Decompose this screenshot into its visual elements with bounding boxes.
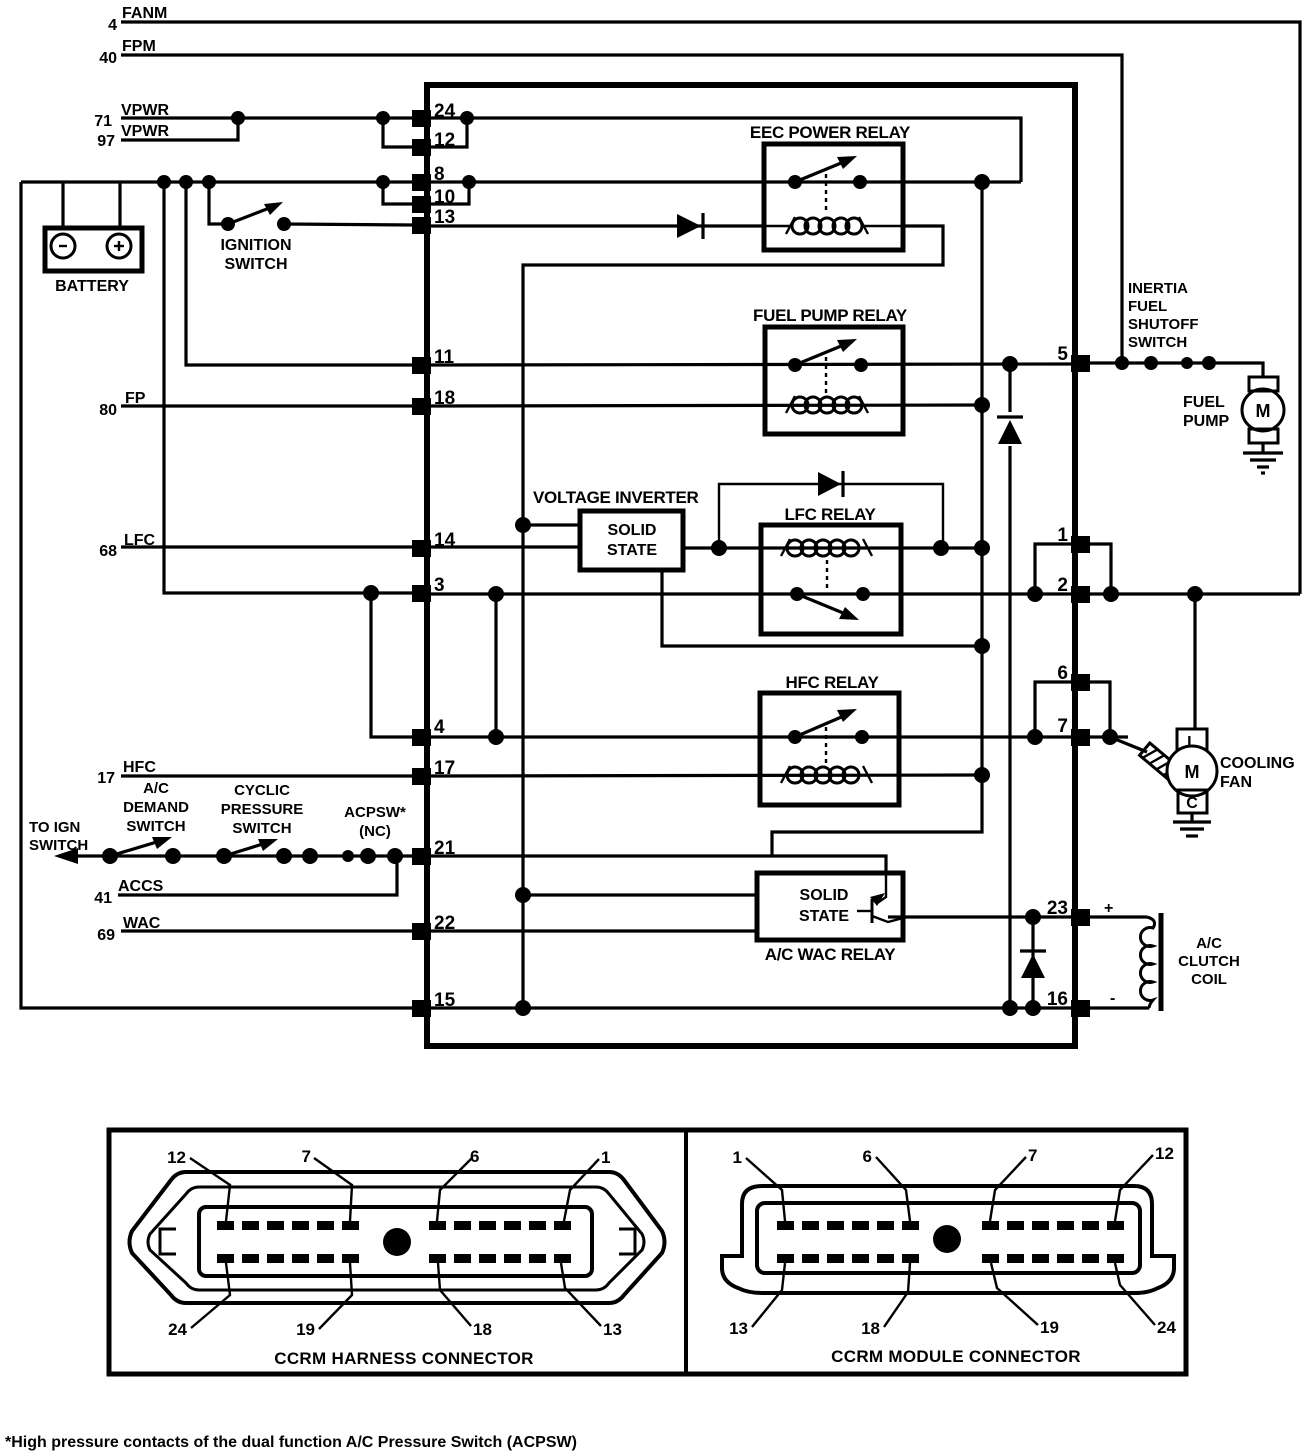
wire loop VPWR to pin12 (left) — [383, 118, 413, 147]
svg-text:VPWR: VPWR — [121, 123, 169, 140]
svg-text:FUEL: FUEL — [1183, 394, 1225, 411]
svg-text:97: 97 — [97, 133, 115, 150]
junction pin8 right loop — [462, 175, 476, 189]
LFC relay K3 — [761, 505, 901, 634]
svg-text:18: 18 — [861, 1319, 880, 1338]
svg-text:68: 68 — [99, 543, 117, 560]
junction bus to pin11 feed — [179, 175, 193, 189]
net LFC (pin 68) — [99, 532, 155, 560]
svg-text:C: C — [1186, 795, 1198, 812]
pin 3 — [412, 575, 445, 602]
pin 5 — [1057, 344, 1090, 372]
svg-text:CLUTCH: CLUTCH — [1178, 953, 1240, 970]
fuel pump motor M1 — [1183, 377, 1284, 453]
svg-text:COOLING: COOLING — [1220, 755, 1295, 772]
junction pin3 line to crosslink — [488, 586, 504, 602]
module callout pin 13 — [729, 1263, 785, 1338]
resistor R1 fan low speed (hatched) — [1140, 743, 1181, 781]
junction feed rail at WAC input — [515, 887, 531, 903]
harness callout pin 1 — [564, 1148, 610, 1221]
junction LFC coil to B+ rail — [974, 540, 990, 556]
wire cooling fan feed drop — [1193, 594, 1196, 729]
wire feed rail to voltage inverter input — [523, 523, 580, 526]
wire pin13 ignition line to EEC coil — [431, 224, 764, 227]
svg-text:PRESSURE: PRESSURE — [221, 801, 304, 818]
diode D3 on vertical branch — [997, 412, 1023, 446]
EEC power relay K1 — [750, 123, 911, 250]
harness callout pin 12 — [167, 1148, 230, 1221]
wire pin17 HFC line through HFC coil to B+ rail — [431, 775, 982, 776]
svg-text:7: 7 — [1028, 1146, 1037, 1165]
pin 1 — [1057, 525, 1090, 553]
svg-text:HFC: HFC — [123, 759, 156, 776]
svg-text:BATTERY: BATTERY — [55, 278, 129, 295]
harness pins row top — [217, 1221, 571, 1230]
pin 16 — [1047, 989, 1090, 1017]
svg-text:INERTIA: INERTIA — [1128, 280, 1188, 297]
junction HFC coil to B+ rail — [974, 767, 990, 783]
voltage inverter U1 solid state — [580, 511, 683, 570]
svg-text:19: 19 — [296, 1320, 315, 1339]
A/C WAC relay U2 solid state — [757, 873, 903, 964]
wire FPM horizontal and drop to inertia line — [121, 55, 1122, 363]
CCRM module box outline — [427, 85, 1075, 1046]
junction bus left of pin8 — [376, 175, 390, 189]
ground cooling fan — [1173, 813, 1211, 836]
HFC relay K4 — [760, 673, 899, 805]
wire pin21 line to WAC relay input — [431, 856, 886, 873]
net HFC (pin 17) — [97, 759, 156, 787]
wire VPWR pin24 line inside module to EEC contact output — [431, 118, 1021, 182]
pin 12 — [412, 130, 455, 156]
A/C clutch coil L1 — [1140, 913, 1239, 1011]
wire pin3 line through LFC relay contacts to pin2 — [431, 592, 1071, 595]
net WAC (pin 69) — [97, 915, 161, 944]
wire pin15 ground line to pin16 — [431, 1006, 1071, 1009]
ACPSW normally-closed contacts — [302, 804, 406, 864]
wire WAC line to pin22 — [121, 929, 413, 932]
pin 8 — [412, 164, 445, 191]
svg-text:(NC): (NC) — [359, 823, 391, 840]
svg-text:M: M — [1185, 762, 1200, 782]
module connector pin field — [757, 1203, 1140, 1273]
svg-text:24: 24 — [168, 1320, 187, 1339]
arrow to ignition switch — [54, 848, 78, 864]
harness callout pin 7 — [302, 1147, 352, 1221]
svg-text:IGNITION: IGNITION — [220, 237, 291, 254]
svg-text:SWITCH: SWITCH — [1128, 334, 1187, 351]
junction pin24 right loop — [460, 111, 474, 125]
wire feed to pin3 — [164, 182, 413, 593]
svg-text:DEMAND: DEMAND — [123, 799, 189, 816]
svg-text:HFC RELAY: HFC RELAY — [785, 673, 879, 692]
pin 10 — [412, 187, 455, 213]
svg-text:1: 1 — [733, 1148, 742, 1167]
net FANM (pin 4) — [108, 5, 167, 34]
wire ACCS line rising to chain — [118, 856, 397, 895]
svg-text:6: 6 — [470, 1147, 479, 1166]
wire pin6 outer loop — [1090, 682, 1110, 737]
svg-text:69: 69 — [97, 927, 115, 944]
junction cooling fan feed — [1187, 586, 1203, 602]
svg-text:LFC RELAY: LFC RELAY — [784, 505, 876, 524]
svg-text:FANM: FANM — [122, 5, 167, 22]
svg-text:FUEL PUMP RELAY: FUEL PUMP RELAY — [753, 306, 908, 325]
junction ACCS joins chain — [387, 848, 403, 864]
wire loop bus to pin10 (left) — [383, 182, 413, 204]
wire pin1 inner loop — [1035, 544, 1071, 594]
diode D1 on pin13 line — [677, 213, 703, 239]
svg-text:SHUTOFF: SHUTOFF — [1128, 316, 1199, 333]
net VPWR (pin 71) — [94, 102, 169, 130]
wire pin22 WAC line into WAC relay — [431, 929, 757, 932]
wire feed rail to WAC relay left input — [523, 893, 757, 896]
pin 17 — [412, 758, 455, 785]
svg-text:SWITCH: SWITCH — [126, 818, 185, 835]
harness connector key left — [160, 1229, 176, 1254]
module callout pin 24 — [1115, 1263, 1176, 1337]
svg-text:*High pressure contacts of the: *High pressure contacts of the dual func… — [5, 1434, 577, 1451]
battery B1 — [45, 182, 142, 295]
wire LFC line to pin14 — [121, 545, 413, 548]
svg-text:FAN: FAN — [1220, 774, 1252, 791]
wire VPWR pin71 line — [121, 116, 413, 119]
svg-text:ACCS: ACCS — [118, 878, 164, 895]
net VPWR (pin 97) — [97, 123, 169, 150]
module callout pin 7 — [990, 1146, 1037, 1221]
svg-text:A/C WAC RELAY: A/C WAC RELAY — [765, 945, 897, 964]
ignition switch S1 — [209, 182, 292, 273]
wire pin7 line to fan resistor — [1090, 735, 1128, 738]
battery positive bus y=182 — [21, 180, 413, 183]
svg-text:CYCLIC: CYCLIC — [234, 782, 290, 799]
wire loop to pin10 (right) — [431, 182, 469, 204]
net FP (pin 80) — [99, 390, 146, 419]
wire feed branch to pin4 — [371, 593, 413, 737]
wire battery negative rail down left side to pin15 line — [21, 182, 413, 1008]
svg-text:SOLID: SOLID — [608, 522, 657, 539]
svg-text:CCRM HARNESS CONNECTOR: CCRM HARNESS CONNECTOR — [274, 1349, 533, 1368]
harness callout pin 13 — [561, 1263, 622, 1339]
CCRM harness connector J1 — [130, 1172, 665, 1303]
svg-text:STATE: STATE — [799, 908, 849, 925]
pin 11 — [412, 347, 455, 374]
wire EEC coil return loop down to internal feed rail — [523, 226, 943, 1008]
pin 4 — [412, 717, 445, 746]
module callout pin 19 — [991, 1263, 1059, 1337]
pin 14 — [412, 530, 456, 557]
harness callout pin 6 — [437, 1147, 479, 1221]
svg-text:SWITCH: SWITCH — [224, 256, 287, 273]
svg-text:12: 12 — [1155, 1144, 1174, 1163]
wire diagonal to low speed resistor — [1110, 737, 1147, 752]
diode D2 on bypass loop — [818, 471, 843, 497]
module center polarizing post — [933, 1225, 961, 1253]
wire voltage inverter output through LFC coil to B+ rail — [683, 546, 982, 549]
svg-text:12: 12 — [167, 1148, 186, 1167]
junction VPWR left of pin24 — [376, 111, 390, 125]
junction diode bypass right — [933, 540, 949, 556]
junction B+ distribution vertical top — [974, 174, 990, 190]
module pins row top — [777, 1221, 1124, 1230]
svg-text:80: 80 — [99, 402, 117, 419]
harness callout pin 19 — [296, 1263, 352, 1339]
diode D4 clamp across A/C clutch — [1020, 917, 1046, 1008]
wire pin1 outer loop — [1090, 544, 1111, 594]
harness callout pin 24 — [168, 1263, 230, 1339]
svg-text:-: - — [1110, 990, 1115, 1007]
pin 22 — [412, 913, 455, 940]
wire FANM horizontal top — [121, 22, 1300, 594]
wire pin16 line to clutch coil minus — [1090, 1006, 1149, 1009]
svg-text:TO IGN: TO IGN — [29, 819, 80, 836]
cooling fan motor M2 — [1167, 729, 1295, 813]
svg-text:COIL: COIL — [1191, 971, 1227, 988]
svg-text:VOLTAGE INVERTER: VOLTAGE INVERTER — [533, 488, 699, 507]
junction bus to pin3/4 feed — [157, 175, 171, 189]
junction diode bypass left — [711, 540, 727, 556]
label TO IGN SWITCH — [29, 819, 88, 854]
label inertia fuel shutoff switch — [1128, 280, 1199, 351]
svg-text:4: 4 — [108, 17, 117, 34]
svg-text:ACPSW*: ACPSW* — [344, 804, 406, 821]
wire pin5 line to fuel pump — [1090, 363, 1263, 377]
pin 6 — [1057, 663, 1090, 691]
module callout pin 18 — [861, 1263, 910, 1338]
svg-text:A/C: A/C — [143, 780, 169, 797]
pin 21 — [412, 838, 456, 865]
wire pin23 line to clutch coil plus — [1090, 915, 1147, 918]
svg-text:SWITCH: SWITCH — [232, 820, 291, 837]
junction coil to B+ rail — [974, 397, 990, 413]
junction VI feed at B+ rail — [974, 638, 990, 654]
svg-text:SOLID: SOLID — [800, 887, 849, 904]
wire loop VPWR to pin12 (right) — [431, 118, 467, 147]
wire A/C switch chain to pin21 — [60, 854, 413, 857]
pin 15 — [412, 990, 456, 1017]
harness connector inner shell — [148, 1187, 644, 1290]
junction pin1 inner loop on pin2 line — [1027, 586, 1043, 602]
module callout pin 12 — [1115, 1144, 1174, 1221]
module connector outer shell with wings — [722, 1186, 1174, 1293]
junction feed rail to voltage inverter — [515, 517, 531, 533]
pin 13 — [412, 207, 455, 234]
fuel pump relay K2 — [753, 306, 908, 434]
module callout pin 6 — [863, 1147, 910, 1221]
junction pin1 outer loop at pin2 line — [1103, 586, 1119, 602]
svg-text:41: 41 — [94, 890, 112, 907]
junction pin6 outer loop at pin7 line — [1102, 729, 1118, 745]
wire crosslink pin3 line to pin4 line — [494, 594, 497, 737]
wire pin6 inner loop — [1035, 682, 1071, 737]
module callout pin 1 — [733, 1148, 785, 1221]
net FPM (pin 40) — [99, 38, 156, 67]
net ACCS (pin 41) — [94, 878, 163, 907]
wire HFC line to pin17 — [121, 774, 413, 777]
inertia fuel shutoff switch S4 contacts — [1115, 356, 1216, 370]
svg-text:6: 6 — [863, 1147, 872, 1166]
module pins row bottom — [777, 1254, 1124, 1263]
junction diode vertical at pin16 line — [1002, 1000, 1018, 1016]
svg-text:7: 7 — [1057, 716, 1068, 737]
svg-text:PUMP: PUMP — [1183, 413, 1230, 430]
junction crosslink at pin4 line — [488, 729, 504, 745]
svg-text:17: 17 — [97, 770, 115, 787]
svg-text:1: 1 — [601, 1148, 610, 1167]
junction VPWR merge — [231, 111, 245, 125]
wire FP line to pin18 — [121, 404, 413, 407]
svg-text:13: 13 — [729, 1319, 748, 1338]
svg-text:7: 7 — [302, 1147, 311, 1166]
svg-text:SWITCH: SWITCH — [29, 837, 88, 854]
wire WAC relay output to pin23 — [888, 915, 1071, 918]
pin 18 — [412, 388, 455, 415]
wire feed to pin11 — [186, 182, 413, 365]
junction clamp diode top — [1025, 909, 1041, 925]
svg-text:71: 71 — [94, 113, 112, 130]
A/C demand switch S2 — [102, 780, 189, 864]
svg-text:EEC POWER RELAY: EEC POWER RELAY — [750, 123, 911, 142]
wire diode bypass loop over LFC coil — [719, 484, 943, 548]
cyclic pressure switch S3 — [216, 782, 303, 864]
svg-text:24: 24 — [1157, 1318, 1176, 1337]
divider between connector views — [684, 1130, 688, 1374]
junction pin3 feed branch — [363, 585, 379, 601]
wire pin14 LFC line into voltage inverter — [431, 545, 580, 548]
svg-text:A/C: A/C — [1196, 935, 1222, 952]
pin 23 — [1047, 898, 1090, 926]
svg-text:40: 40 — [99, 50, 117, 67]
junction pin6 inner loop on pin7 line — [1027, 729, 1043, 745]
svg-text:CCRM MODULE CONNECTOR: CCRM MODULE CONNECTOR — [831, 1347, 1081, 1366]
svg-text:5: 5 — [1057, 344, 1068, 365]
junction feed rail bottom at ground line — [515, 1000, 531, 1016]
svg-text:4: 4 — [434, 717, 445, 738]
harness connector key right — [619, 1229, 635, 1254]
wire voltage inverter B+ feed from bottom — [662, 570, 982, 646]
svg-text:M: M — [1256, 401, 1271, 421]
wire ignition switch to pin13 — [284, 224, 413, 225]
wire B+ distribution vertical — [772, 182, 982, 856]
junction bus to ignition switch — [202, 175, 216, 189]
wire pin2 line to cooling fan and FANM — [1090, 592, 1300, 595]
CCRM module connector J2 — [722, 1186, 1174, 1293]
pin 24 — [412, 101, 456, 127]
svg-text:19: 19 — [1040, 1318, 1059, 1337]
harness pins row bottom — [217, 1254, 571, 1263]
svg-text:STATE: STATE — [607, 542, 657, 559]
harness center polarizing post — [383, 1228, 411, 1256]
svg-text:13: 13 — [603, 1320, 622, 1339]
wire diode branch vertical from pin5 line to pin16 line — [1008, 364, 1011, 1008]
harness callout pin 18 — [438, 1263, 492, 1339]
junction diode branch on pin5 line — [1002, 356, 1018, 372]
svg-text:+: + — [1104, 900, 1113, 917]
wire pin8 battery line through EEC relay contacts — [431, 180, 1021, 183]
harness connector pin field — [199, 1207, 592, 1276]
pin 7 — [1057, 716, 1090, 746]
junction clamp diode bottom — [1025, 1000, 1041, 1016]
svg-text:18: 18 — [473, 1320, 492, 1339]
wire pin4 line through HFC relay contacts to pin7 — [431, 735, 1071, 738]
svg-text:FPM: FPM — [122, 38, 156, 55]
pin 2 — [1057, 575, 1090, 603]
wire pin18 FP line through fuel pump relay coil to B+ rail — [431, 405, 982, 406]
wire pin11 line through fuel pump relay contacts to pin5 — [431, 364, 1071, 365]
svg-text:FUEL: FUEL — [1128, 298, 1167, 315]
wire VPWR pin97 merging up into pin71 line — [121, 118, 238, 140]
connector detail outer frame — [109, 1130, 1186, 1374]
harness connector outer shell — [130, 1172, 665, 1303]
ground fuel pump — [1243, 453, 1283, 473]
